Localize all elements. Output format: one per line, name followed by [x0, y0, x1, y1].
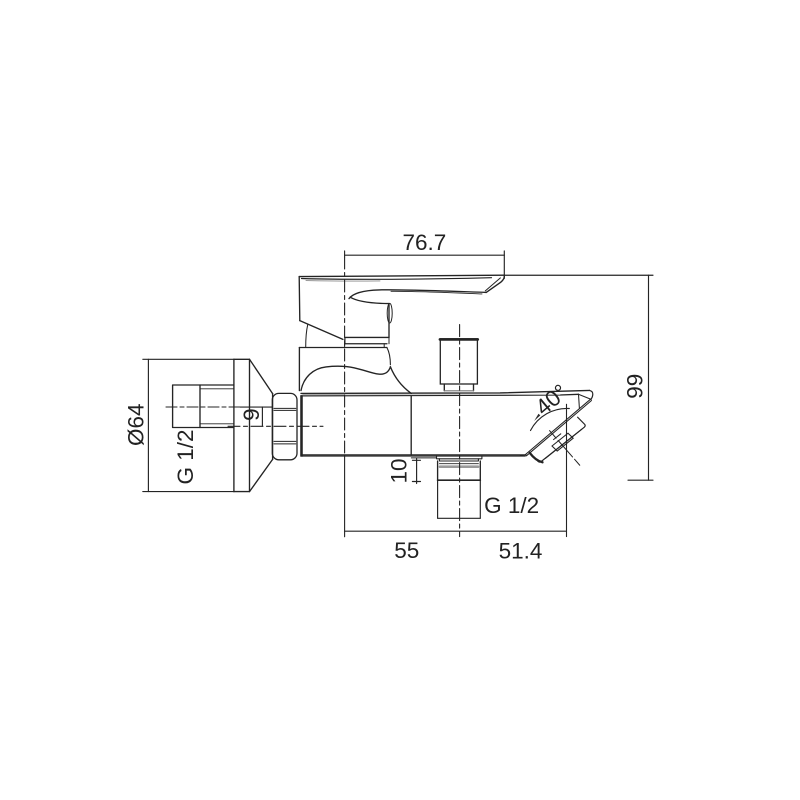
- svg-text:55: 55: [394, 538, 419, 563]
- svg-text:G 1/2: G 1/2: [484, 493, 539, 518]
- svg-text:51.4: 51.4: [499, 539, 543, 564]
- svg-text:10: 10: [387, 458, 412, 483]
- svg-text:9: 9: [239, 408, 264, 421]
- svg-text:99: 99: [623, 374, 648, 399]
- svg-text:76.7: 76.7: [403, 230, 447, 255]
- svg-text:Ø64: Ø64: [124, 403, 149, 446]
- svg-text:G 1/2: G 1/2: [173, 429, 198, 484]
